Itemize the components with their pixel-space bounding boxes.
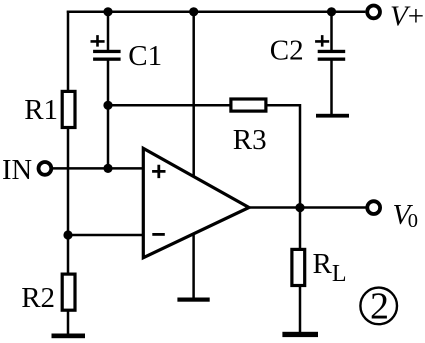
wire R1 bottom to R2 top	[67, 129, 70, 274]
wire op-amp V+ pin to rail	[192, 12, 195, 176]
wire top supply rail	[67, 11, 366, 14]
wire C1 top to rail	[107, 12, 110, 51]
svg-text:2: 2	[370, 286, 389, 328]
node rail-C2 junction	[327, 7, 336, 16]
node rail-C1 junction	[103, 7, 112, 16]
wire inverting input from node to op-amp	[68, 234, 143, 237]
wire C2 bottom plate to ground	[330, 60, 333, 115]
node output junction	[295, 203, 304, 212]
figure number 2	[360, 286, 397, 328]
resistor R3	[231, 99, 266, 111]
svg-text:C1: C1	[128, 40, 162, 72]
resistor R1	[62, 91, 75, 127]
wire RL bottom to ground	[299, 287, 302, 334]
svg-text:R3: R3	[233, 124, 267, 156]
wire op-amp ground pin	[192, 235, 195, 300]
svg-text:V+: V+	[390, 1, 424, 33]
svg-text:R2: R2	[21, 282, 55, 314]
svg-text:R1: R1	[24, 94, 58, 126]
wire node to IN line	[107, 105, 110, 168]
ground below RL	[282, 332, 318, 337]
wire output node to RL	[299, 208, 302, 249]
terminal IN	[39, 162, 52, 175]
ground below op-amp	[177, 298, 209, 302]
wire R2 bottom to ground	[67, 311, 70, 335]
svg-text:RL: RL	[313, 248, 347, 287]
wire left vertical from rail to R1	[67, 11, 70, 91]
wire IN terminal to op-amp noninverting input	[53, 167, 144, 170]
ground below C2	[316, 114, 349, 118]
resistor RL	[292, 249, 305, 285]
capacitor C2	[315, 35, 345, 61]
resistor R2	[62, 274, 75, 310]
op-amp U1	[143, 148, 249, 257]
node rail-opamp junction	[189, 7, 198, 16]
wire op-amp output	[250, 206, 366, 209]
svg-text:IN: IN	[2, 155, 32, 186]
node C1-R3 junction	[103, 101, 112, 110]
capacitor C1	[91, 35, 121, 61]
terminal V0	[367, 201, 380, 214]
wire C1 bottom plate to node	[107, 60, 110, 105]
node IN junction	[103, 164, 112, 173]
svg-text:C2: C2	[270, 35, 304, 67]
node inverting input junction	[63, 230, 72, 239]
wire node to R3 left	[108, 104, 230, 107]
wire C2 top to rail	[330, 12, 333, 51]
ground below R2	[52, 334, 86, 339]
svg-text:0: 0	[408, 210, 418, 232]
terminal V+	[367, 5, 380, 18]
wire R3 right to output node	[267, 105, 300, 207]
